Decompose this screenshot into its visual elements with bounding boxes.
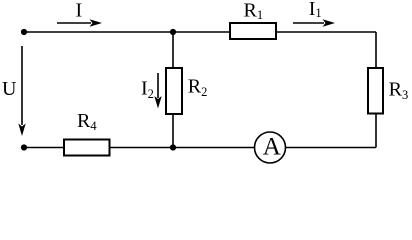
svg-text:I: I — [76, 0, 83, 21]
svg-text:A: A — [263, 134, 281, 161]
svg-text:U: U — [2, 78, 17, 100]
